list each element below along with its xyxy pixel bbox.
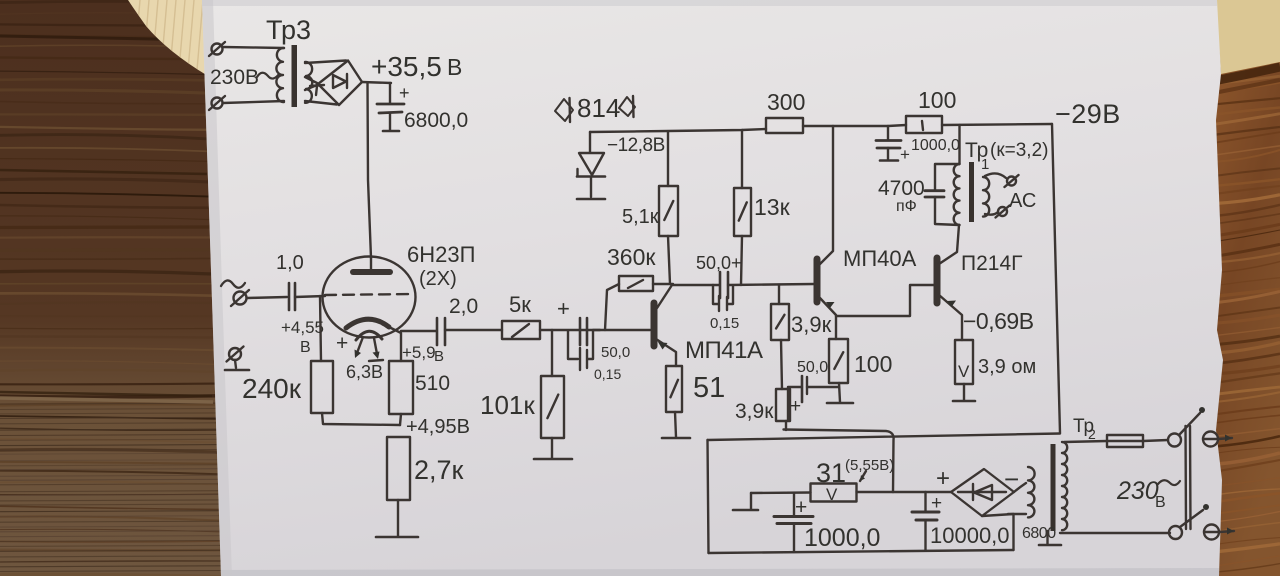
transformer Тр3 label — [266, 15, 311, 45]
svg-text:−0,69В: −0,69В — [963, 308, 1034, 334]
svg-text:31: 31 — [816, 458, 846, 488]
wire primary top — [223, 47, 284, 48]
svg-text:В: В — [447, 54, 462, 80]
stub minus terminal — [733, 493, 758, 510]
tube cathode — [346, 319, 389, 328]
terminal output bottom — [1204, 525, 1234, 540]
wire secondary to АС bottom — [985, 212, 998, 215]
resistor 240к — [311, 361, 333, 413]
svg-text:+: + — [900, 145, 910, 164]
svg-text:Тр3: Тр3 — [266, 15, 311, 45]
wire −29В right border — [1052, 124, 1060, 433]
label 101к — [480, 390, 535, 420]
wire C2 to R5k — [445, 329, 502, 331]
label 6800,0 — [404, 109, 468, 132]
transformer Тр3 core — [292, 45, 298, 107]
svg-text:+: + — [336, 332, 348, 355]
svg-text:1,0: 1,0 — [276, 252, 304, 274]
svg-text:51: 51 — [693, 372, 725, 404]
wire 100 to ground — [839, 383, 840, 402]
ground Тр2 — [1039, 544, 1061, 547]
wire 51 to ground — [675, 412, 676, 437]
wire Тр2 bottom stub — [1046, 531, 1048, 544]
label Тр1 (к=3,2) — [965, 139, 1048, 173]
svg-text:пФ: пФ — [896, 198, 917, 215]
resistor 2,7к — [387, 437, 410, 500]
wire C4 to МП40А base — [728, 284, 814, 285]
label 360к — [607, 244, 656, 270]
svg-text:(к=3,2): (к=3,2) — [990, 140, 1048, 161]
wire 101к to ground — [551, 438, 553, 458]
wire Тр2 to fuse — [1064, 441, 1107, 442]
capacitor 50,0 coupling — [580, 318, 587, 345]
svg-text:100: 100 — [854, 351, 892, 377]
transformer Тр1 primary winding — [954, 164, 960, 225]
МП41А emitter arm — [656, 339, 676, 366]
capacitor 50,0 interstage — [720, 272, 728, 298]
label 6,3В — [346, 362, 383, 382]
wire C1 to grid — [295, 296, 325, 297]
label 100 emitter — [854, 351, 892, 377]
label 1,0 — [276, 252, 304, 274]
wire supply loop bottom — [709, 550, 1014, 553]
wire cathode to node — [389, 327, 401, 361]
label 10000,0 — [930, 523, 1010, 548]
svg-text:300: 300 — [767, 89, 805, 115]
wire supply loop left — [708, 440, 709, 553]
fuse F1 — [1107, 435, 1143, 447]
wire Тр2 bottom to switch — [1060, 532, 1170, 534]
label МП41А — [685, 337, 763, 364]
wire rail right — [942, 124, 1052, 125]
wire 31 right — [857, 491, 894, 493]
svg-text:В: В — [300, 339, 311, 356]
transistor МП40А base bar — [814, 259, 821, 302]
wire +35,5В rail down — [368, 83, 372, 258]
svg-text:+5,9: +5,9 — [402, 343, 436, 362]
transformer Тр3 secondary winding — [305, 62, 312, 103]
label −12,8В — [607, 135, 665, 156]
svg-text:МП41А: МП41А — [685, 337, 763, 364]
svg-text:814: 814 — [577, 93, 620, 123]
svg-text:+: + — [557, 296, 570, 321]
label 300 — [767, 89, 805, 115]
wire 5,1к to rail — [667, 132, 669, 186]
svg-text:2: 2 — [1088, 426, 1096, 442]
svg-text:+: + — [790, 396, 801, 417]
wire input to C1 — [247, 297, 287, 298]
label 3,9ом — [978, 356, 1036, 378]
resistor 13к — [734, 188, 751, 236]
label 5к — [509, 292, 531, 317]
wire collector to C4 — [673, 284, 719, 286]
svg-text:6,3В: 6,3В — [346, 362, 383, 382]
terminal input top-left — [209, 42, 225, 56]
label 510 — [415, 372, 450, 395]
МП40А collector arm — [819, 126, 833, 265]
svg-text:6Н23П: 6Н23П — [407, 242, 475, 267]
wire 360к right to collector — [653, 283, 673, 285]
label 1000,0 rail — [911, 137, 960, 154]
switch bar — [1186, 426, 1191, 529]
capacitor 4700пФ branch — [925, 164, 960, 225]
arrow to 31 — [860, 471, 866, 481]
ground below 101к — [534, 458, 572, 461]
svg-text:+4,55: +4,55 — [281, 318, 324, 337]
label Д814Д — [555, 93, 635, 123]
label + bridge — [936, 465, 950, 492]
wire −29В rail left — [590, 129, 766, 132]
wire 5,1к to collector node — [668, 236, 670, 284]
tube anode — [353, 258, 390, 272]
terminal АС top — [1005, 175, 1019, 187]
ground below 3,9ом — [953, 400, 975, 403]
svg-text:50,0: 50,0 — [797, 359, 828, 376]
svg-text:+35,5: +35,5 — [371, 51, 442, 82]
svg-text:П214Г: П214Г — [961, 252, 1023, 275]
label 1000,0 supply — [804, 524, 880, 552]
wire secondary to АС top — [985, 173, 1006, 178]
wire R5k to C3 — [540, 329, 600, 331]
label АС — [1009, 190, 1036, 212]
wire R1 bottom — [322, 413, 400, 425]
wire C3 to base — [593, 329, 650, 331]
svg-text:4700: 4700 — [878, 177, 925, 200]
svg-text:0,15: 0,15 — [594, 366, 621, 382]
capacitor 6800,0 — [377, 83, 410, 131]
svg-text:0,15: 0,15 — [710, 315, 739, 332]
capacitor 1000,0 supply — [774, 496, 813, 552]
svg-text:5к: 5к — [509, 292, 531, 317]
resistor 360к — [619, 276, 653, 291]
wire 3,9к chain — [781, 340, 782, 389]
svg-text:240к: 240к — [242, 373, 302, 404]
label 5,1к — [622, 206, 659, 228]
resistor 3,9к upper — [771, 304, 789, 340]
svg-text:6800,0: 6800,0 — [404, 109, 468, 132]
wire zener to ground — [590, 177, 592, 197]
wire line A from amp — [784, 430, 894, 493]
label 3,9к lower — [735, 400, 774, 423]
svg-text:510: 510 — [415, 372, 450, 395]
resistor 100 emitter — [829, 339, 848, 383]
wire bridge bottom leg — [982, 514, 1014, 550]
wire bridge to secondary top — [1014, 483, 1026, 492]
wire node to bridge — [893, 491, 951, 493]
switch bottom pole — [1169, 504, 1209, 539]
resistor 300 — [766, 118, 803, 133]
label 51 — [693, 372, 725, 404]
wire 510 bottom — [400, 414, 401, 425]
label 50,0+ — [696, 253, 742, 273]
wire node to 101к — [551, 330, 553, 376]
svg-text:230В: 230В — [210, 66, 259, 89]
resistor 510 — [389, 361, 413, 414]
resistor 100 rail — [906, 116, 942, 133]
svg-text:−12,8В: −12,8В — [607, 135, 665, 156]
label +4,55В — [281, 318, 324, 356]
wire 2,7к to ground — [397, 500, 399, 536]
ground below 2,7к — [376, 536, 418, 539]
input AC symbol — [221, 280, 245, 287]
capacitor 1,0 — [289, 283, 295, 310]
zener Д814Д diode — [577, 153, 605, 177]
wire bridge to secondary bottom — [1008, 513, 1026, 515]
svg-text:+: + — [399, 83, 410, 103]
svg-text:2,0: 2,0 — [449, 295, 478, 318]
wire 13к bottom — [741, 236, 742, 285]
svg-text:В: В — [434, 348, 444, 365]
label 2,7к — [414, 455, 464, 485]
svg-text:1000,0: 1000,0 — [804, 524, 880, 552]
tube grid (dashed) — [325, 294, 414, 295]
svg-text:АС: АС — [1009, 190, 1036, 212]
label 4700пФ — [878, 177, 925, 215]
input terminal — [231, 290, 249, 306]
label −0,69В — [963, 308, 1034, 334]
capacitor 2,0 — [437, 318, 445, 345]
wire rail mid — [803, 125, 906, 126]
label П214Г — [961, 252, 1023, 275]
resistor 31 — [811, 484, 857, 505]
heater minus arrow — [369, 338, 383, 361]
tube heater — [356, 331, 382, 340]
capacitor 1000,0 rail — [876, 126, 910, 164]
terminal input bottom-left — [209, 96, 225, 110]
label + lower — [790, 396, 801, 417]
wire 31 node down — [793, 493, 795, 516]
transformer Тр2 core — [1051, 444, 1056, 531]
wire base П214Г — [836, 285, 934, 316]
switch top pole — [1168, 407, 1205, 447]
resistor 5к — [502, 321, 540, 339]
label (5,55В) — [845, 457, 894, 474]
svg-text:6800: 6800 — [1022, 525, 1056, 542]
wire line B supply top — [708, 434, 1061, 441]
wire 31 left — [751, 491, 811, 494]
label 6800 — [1022, 525, 1056, 542]
bridge rectifier B1 body — [305, 61, 362, 106]
svg-text:В: В — [1155, 494, 1166, 511]
wire 3,9к to line A — [785, 421, 787, 430]
transformer Тр1 core — [969, 162, 974, 222]
svg-text:1000,0: 1000,0 — [911, 137, 960, 154]
label 230В~ secondary — [1116, 477, 1180, 511]
transformer Тр2 secondary winding — [1028, 467, 1035, 517]
label 240к — [242, 373, 302, 404]
label МП40А — [843, 246, 917, 271]
bridge B2 diode — [958, 484, 1006, 500]
label 230В~ primary — [210, 66, 279, 89]
tube 6Н23П label — [407, 242, 475, 290]
label −29В — [1055, 99, 1121, 129]
wire 3,9к top — [778, 285, 780, 304]
wire zener top — [589, 132, 591, 152]
capacitor 0,15 interstage — [713, 285, 733, 311]
svg-text:50,0: 50,0 — [601, 344, 630, 361]
svg-text:+: + — [936, 465, 950, 492]
label 50,0 bypass — [797, 359, 828, 376]
svg-text:5,1к: 5,1к — [622, 206, 659, 228]
svg-text:360к: 360к — [607, 244, 656, 270]
label +4,95В — [406, 416, 470, 438]
П214Г emitter arm — [939, 295, 962, 340]
terminal output top — [1203, 432, 1232, 447]
svg-text:3,9к: 3,9к — [735, 400, 774, 423]
svg-text:+: + — [795, 496, 807, 519]
МП41А collector arm — [657, 285, 672, 308]
wire rail to Тр1 — [958, 125, 960, 164]
svg-text:+: + — [931, 493, 942, 514]
label 0,15 — [594, 366, 621, 382]
capacitor 0,15 parallel — [568, 331, 593, 370]
resistor 3,9к lower — [776, 389, 790, 421]
wire cathode to C2 — [401, 330, 436, 332]
resistor 5,1к — [659, 186, 678, 236]
svg-text:−29В: −29В — [1055, 99, 1121, 129]
svg-text:+4,95В: +4,95В — [406, 416, 470, 438]
ground below 100 — [827, 402, 853, 405]
wire fuse to switch — [1143, 440, 1168, 441]
svg-text:3,9 ом: 3,9 ом — [978, 356, 1036, 378]
wire bridge output — [362, 82, 391, 83]
transistor П214Г base bar — [934, 258, 941, 303]
tube envelope — [323, 257, 416, 338]
label 100 rail — [918, 87, 956, 113]
МП40А emitter arm — [819, 297, 836, 339]
svg-text:230: 230 — [1116, 477, 1159, 505]
svg-text:(2X): (2X) — [419, 268, 457, 290]
svg-text:50,0+: 50,0+ — [696, 253, 742, 273]
svg-text:10000,0: 10000,0 — [930, 523, 1010, 548]
label + C3 — [557, 296, 570, 321]
wire 13к top — [741, 130, 743, 188]
svg-text:МП40А: МП40А — [843, 246, 917, 271]
svg-text:100: 100 — [918, 87, 956, 113]
label +5,9В — [402, 343, 444, 365]
label +35,5В — [371, 51, 462, 82]
svg-text:2,7к: 2,7к — [414, 455, 464, 485]
bridge B1 second diode mark — [310, 85, 324, 95]
bridge B1 diode — [333, 74, 347, 88]
transistor МП41А base bar — [651, 303, 658, 346]
transformer Тр1 secondary winding — [983, 177, 989, 217]
label − bridge — [1004, 464, 1019, 494]
svg-text:3,9к: 3,9к — [791, 312, 832, 337]
capacitor 50,0 bypass — [788, 376, 839, 420]
label Тр2 — [1073, 416, 1096, 442]
resistor 3,9ом — [955, 340, 973, 384]
wire grid down to R1 — [320, 296, 321, 361]
label 2,0 — [449, 295, 478, 318]
transformer Тр2 primary winding — [1062, 442, 1067, 530]
terminal ground input — [225, 347, 249, 371]
svg-text:13к: 13к — [754, 194, 791, 220]
capacitor 10000,0 — [912, 492, 942, 550]
label 13к — [754, 194, 791, 220]
terminal АС bottom — [996, 206, 1010, 218]
wire 3,9ом to ground — [963, 384, 965, 400]
svg-text:(5,55В): (5,55В) — [845, 457, 894, 474]
svg-text:V: V — [958, 362, 970, 381]
wire primary bottom — [223, 101, 284, 103]
label 3,9к upper — [791, 312, 832, 337]
ground below 51 — [662, 437, 690, 440]
ground below zener — [577, 198, 605, 201]
bridge rectifier B2 body — [951, 469, 1014, 516]
label 50,0 — [601, 344, 630, 361]
transformer Тр3 primary winding — [276, 48, 284, 102]
П214Г collector arm — [939, 225, 959, 264]
svg-text:101к: 101к — [480, 390, 535, 420]
resistor 101к — [541, 376, 564, 438]
resistor 51 — [666, 366, 682, 412]
label 31 — [816, 458, 846, 488]
label 0,15 interstage — [710, 315, 739, 332]
wire 360к left leg — [605, 284, 619, 330]
svg-text:1: 1 — [981, 156, 989, 173]
heater plus arrow — [336, 332, 363, 358]
